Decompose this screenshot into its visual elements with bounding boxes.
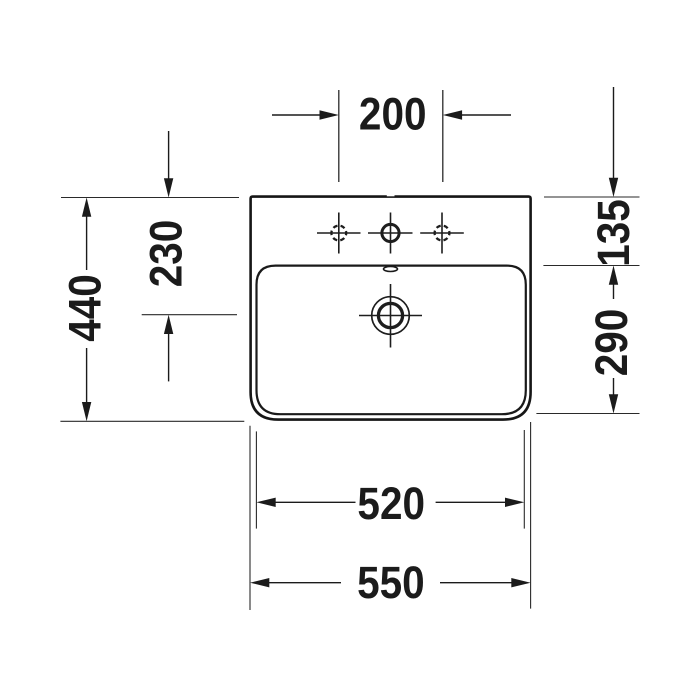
svg-text:290: 290	[587, 309, 637, 377]
dimension 550 left extension line	[249, 426, 251, 610]
dimension 440 bottom extension line	[60, 420, 244, 422]
dimension 200 extension line left	[338, 90, 340, 182]
svg-text:230: 230	[142, 220, 192, 288]
drain	[359, 284, 422, 348]
dimension 230 middle extension line	[142, 314, 237, 316]
washbasin outer outline	[251, 197, 531, 420]
svg-text:200: 200	[359, 89, 427, 139]
basin top right extension line	[543, 265, 639, 267]
faucet hole left (dashed)	[317, 213, 361, 254]
dimension 200 extension line right	[442, 90, 444, 182]
dimension 520 left arrow	[256, 498, 355, 507]
dimension 135 / 440 right top extension line	[544, 196, 640, 198]
basin bottom right extension line	[536, 413, 639, 415]
faucet hole center	[368, 213, 413, 254]
dimension 200 left arrow	[272, 110, 339, 119]
dimension 440 top extension line	[61, 197, 239, 199]
dimension 550 left arrow	[250, 578, 341, 587]
svg-text:520: 520	[357, 479, 425, 529]
top edge notch	[387, 195, 395, 197]
dimension 200 right arrow	[443, 110, 511, 119]
dimension 290 lower segment with down arrow	[609, 378, 618, 414]
dimension 230 lower pointer (up arrow)	[164, 315, 173, 382]
dimension 520 right arrow	[436, 498, 525, 507]
svg-text:135: 135	[589, 199, 639, 267]
dimension 230 upper pointer (down arrow)	[164, 131, 173, 198]
dimension 520 left extension line	[255, 431, 257, 528]
inner basin outline	[257, 266, 526, 415]
dimension 550 right arrow	[440, 578, 531, 587]
dimension 440 line lower segment with down arrow	[82, 348, 91, 421]
faucet hole right (dashed)	[420, 213, 464, 254]
overflow slot	[384, 267, 398, 272]
dimension 550 right extension line	[530, 422, 532, 609]
dimension 520 right extension line	[523, 430, 525, 529]
dimension 290 upper segment with up arrow	[609, 266, 618, 300]
svg-text:440: 440	[61, 274, 111, 342]
dimension 440 line upper segment with up arrow	[82, 198, 91, 271]
dimension 135 top pointer (down arrow)	[609, 87, 618, 197]
svg-text:550: 550	[357, 558, 425, 608]
